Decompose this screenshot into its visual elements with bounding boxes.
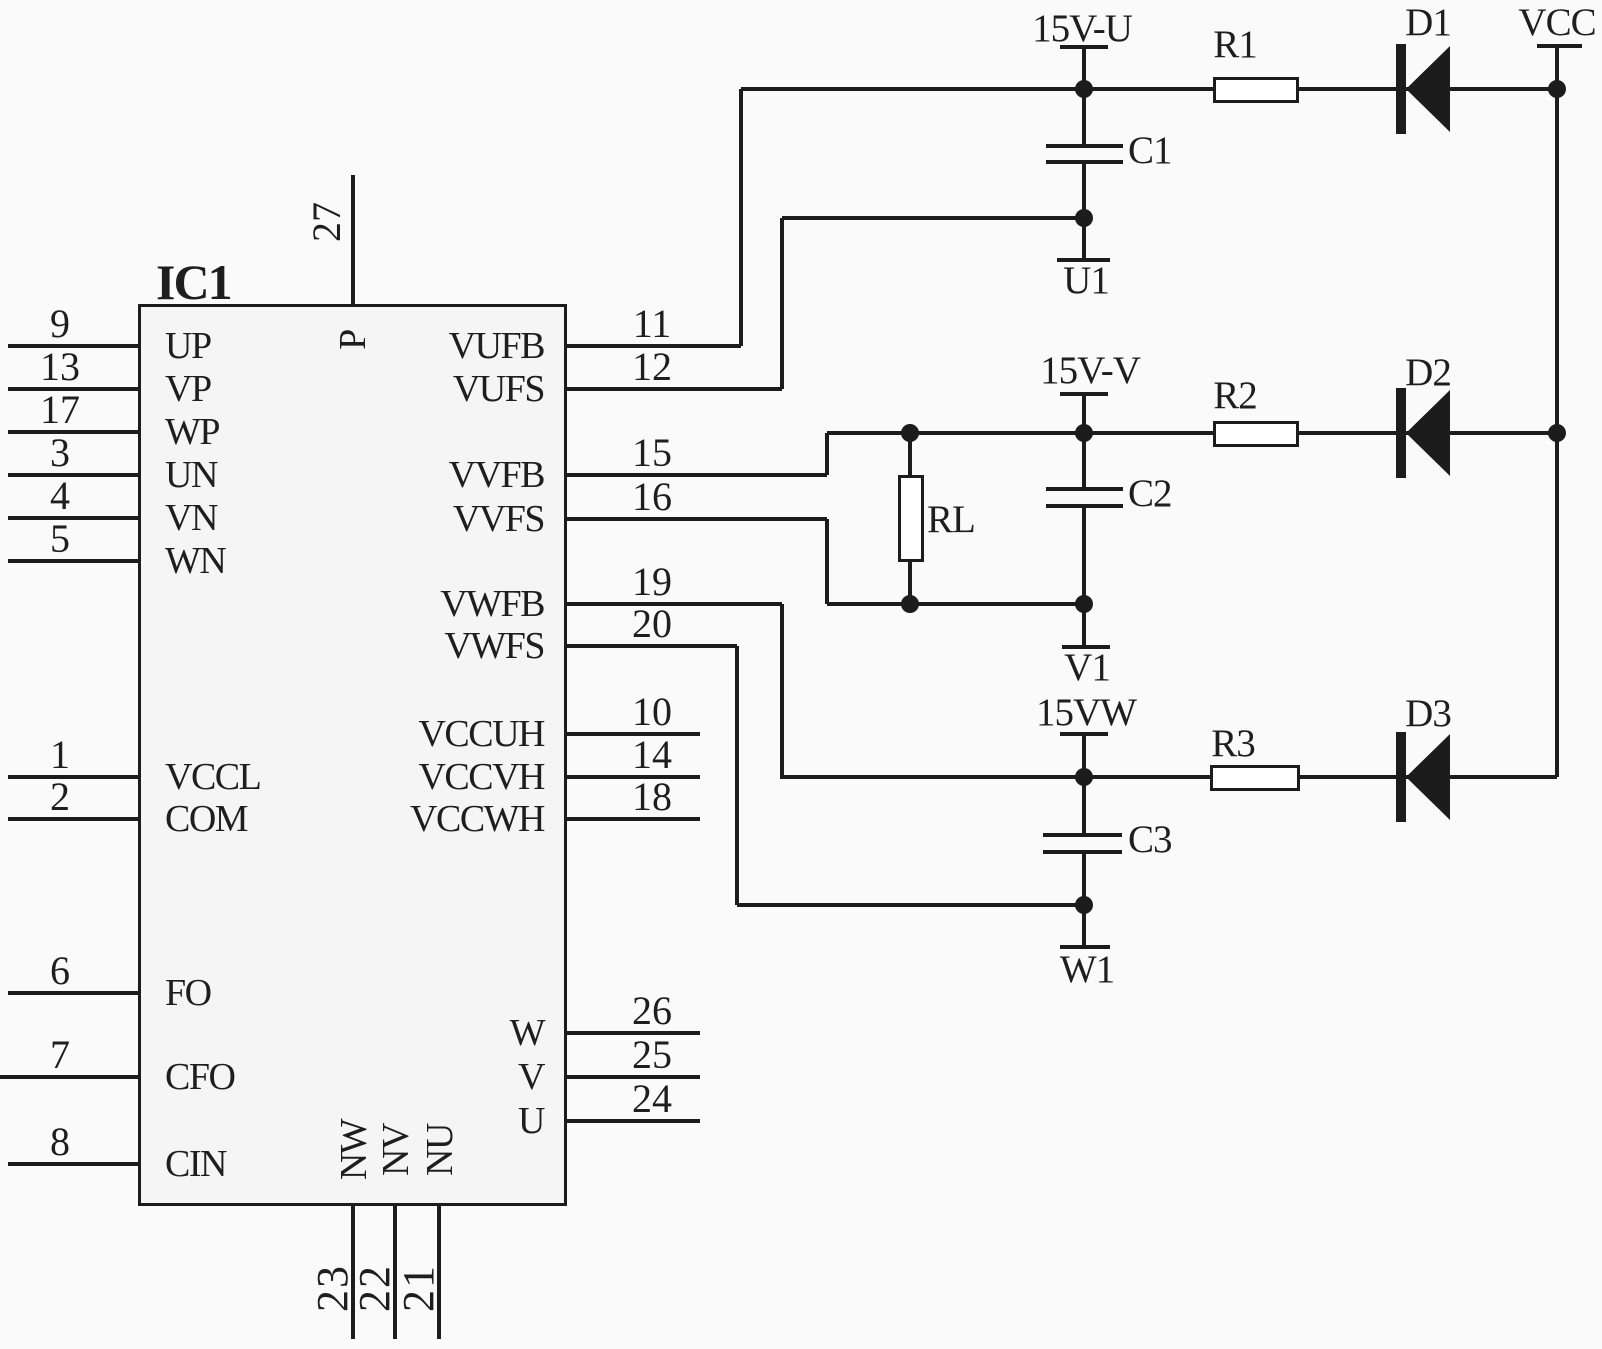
pin name CFO bbox=[165, 1058, 234, 1096]
resistor R3 bbox=[1210, 765, 1300, 791]
junction C1 bottom node bbox=[1075, 209, 1093, 227]
wire 15VW stem bbox=[1082, 736, 1086, 777]
wire 15V-U stem bbox=[1082, 49, 1086, 89]
label C3 bbox=[1128, 820, 1172, 859]
pin number 23 bbox=[311, 1264, 355, 1312]
wire pin 5 (WN) left lead bbox=[8, 559, 138, 563]
pin number 11 bbox=[633, 304, 672, 344]
wire pin 18 (VCCWH) right lead bbox=[566, 817, 700, 821]
pin name FO bbox=[165, 974, 211, 1012]
diode D1 triangle bbox=[1406, 46, 1450, 132]
pin name V bbox=[518, 1058, 544, 1096]
pin number 2 bbox=[50, 777, 70, 817]
pin number 22 bbox=[353, 1264, 397, 1312]
IC U-equivalent: IC1 body bbox=[138, 304, 567, 1206]
resistor R1 bbox=[1213, 77, 1299, 103]
wire pin 12 vertical riser bbox=[780, 218, 784, 389]
pin name VCCVH bbox=[418, 758, 544, 796]
node V1 terminal bar bbox=[1062, 645, 1110, 649]
wire pin 23 (NW) bottom lead bbox=[351, 1205, 355, 1339]
junction U-row at 15V-U bbox=[1075, 80, 1093, 98]
node VCC terminal bar bbox=[1537, 44, 1582, 48]
pin number 13 bbox=[40, 347, 80, 387]
pin name VWFS bbox=[444, 627, 544, 665]
pin name VUFB bbox=[449, 327, 544, 365]
wire pin 1 (VCCL) left lead bbox=[8, 775, 138, 779]
wire pin 11 (VUFB) right lead bbox=[566, 344, 741, 348]
wire pin 12 horizontal to C1 node bbox=[782, 216, 1084, 220]
wire pin 26 (W) right lead bbox=[566, 1031, 700, 1035]
label C2 bbox=[1128, 474, 1172, 513]
pin number 12 bbox=[632, 347, 672, 387]
capacitor C1 bottom plate bbox=[1046, 160, 1123, 164]
pin number 17 bbox=[40, 390, 80, 430]
wire pin 9 (UP) left lead bbox=[8, 344, 138, 348]
wire pin 15 vertical riser bbox=[825, 433, 829, 475]
net label 15V-V bbox=[1040, 351, 1140, 390]
wire pin 3 (UN) left lead bbox=[8, 473, 138, 477]
terminal label V1 bbox=[1064, 648, 1110, 687]
wire pin 27 (P) top lead bbox=[351, 175, 355, 304]
wire pin 2 (COM) left lead bbox=[8, 817, 138, 821]
pin name CIN bbox=[165, 1145, 226, 1183]
wire pin 20 vertical drop bbox=[735, 646, 739, 905]
wire V1 stem bbox=[1082, 604, 1086, 645]
pin name VN bbox=[165, 499, 217, 537]
wire pin 14 (VCCVH) right lead bbox=[566, 775, 700, 779]
capacitor C3 top plate bbox=[1043, 833, 1122, 837]
label D3 bbox=[1405, 694, 1451, 733]
resistor RL bbox=[898, 475, 924, 562]
pin number 14 bbox=[632, 735, 672, 775]
wire pin 16 (VVFS) right lead bbox=[566, 517, 827, 521]
pin name NU bbox=[421, 1124, 459, 1176]
pin name UP bbox=[165, 327, 211, 365]
pin name VVFB bbox=[449, 456, 544, 494]
pin name VCCUH bbox=[418, 715, 544, 753]
wire pin 25 (V) right lead bbox=[566, 1075, 700, 1079]
junction RL bottom bbox=[901, 595, 919, 613]
node W1 terminal bar bbox=[1060, 945, 1110, 949]
node U1 terminal bar bbox=[1057, 258, 1110, 262]
pin number 15 bbox=[632, 433, 672, 473]
pin number 10 bbox=[632, 692, 672, 732]
wire VCC rail vertical bbox=[1555, 48, 1559, 777]
label R1 bbox=[1213, 25, 1257, 64]
pin name VUFS bbox=[453, 370, 544, 408]
pin number 19 bbox=[632, 562, 672, 602]
wire 15V-V stem bbox=[1082, 396, 1086, 433]
pin name VCCL bbox=[165, 758, 260, 796]
net label 15VW bbox=[1036, 693, 1136, 732]
node 15V-U terminal bar bbox=[1060, 45, 1108, 49]
wire pin 22 (NV) bottom lead bbox=[393, 1205, 397, 1339]
junction V-row at RL top bbox=[901, 424, 919, 442]
wire pin 20 (VWFS) right lead bbox=[566, 644, 737, 648]
pin name WP bbox=[165, 413, 219, 451]
pin name VP bbox=[165, 370, 211, 408]
capacitor C2 bottom plate bbox=[1046, 504, 1123, 508]
pin number 5 bbox=[50, 519, 70, 559]
label R3 bbox=[1211, 724, 1255, 763]
wire C1 upper stem bbox=[1082, 89, 1086, 144]
pin number 8 bbox=[50, 1122, 70, 1162]
capacitor C1 top plate bbox=[1046, 144, 1123, 148]
wire V-row main horizontal bbox=[827, 431, 1557, 435]
wire pin 19 (VWFB) right lead bbox=[566, 602, 782, 606]
wire pin 17 (WP) left lead bbox=[8, 430, 138, 434]
diode D2 cathode bar bbox=[1396, 388, 1406, 478]
pin name P bbox=[334, 330, 372, 350]
label D2 bbox=[1405, 353, 1451, 392]
pin number 6 bbox=[50, 951, 70, 991]
pin number 4 bbox=[50, 476, 70, 516]
pin number 20 bbox=[632, 604, 672, 644]
pin number 24 bbox=[632, 1079, 672, 1119]
resistor R2 bbox=[1213, 421, 1299, 447]
wire C3 upper stem bbox=[1082, 777, 1086, 833]
pin name UN bbox=[165, 456, 217, 494]
pin number 3 bbox=[50, 433, 70, 473]
pin name WN bbox=[165, 542, 225, 580]
net label 15V-U bbox=[1032, 9, 1132, 48]
pin name VVFS bbox=[453, 500, 544, 538]
pin name VWFB bbox=[440, 585, 544, 623]
pin number 9 bbox=[50, 304, 70, 344]
node 15V-V terminal bar bbox=[1060, 392, 1108, 396]
wire C2 lower stem bbox=[1082, 508, 1086, 604]
pin number 16 bbox=[632, 477, 672, 517]
node 15VW terminal bar bbox=[1060, 732, 1108, 736]
diode D3 cathode bar bbox=[1396, 732, 1406, 822]
wire pin 11 vertical riser bbox=[739, 89, 743, 346]
junction U-row at VCC rail bbox=[1548, 80, 1566, 98]
terminal label U1 bbox=[1063, 261, 1109, 300]
label RL bbox=[927, 500, 975, 539]
pin number 27 bbox=[307, 202, 347, 242]
wire pin 8 (CIN) left lead bbox=[8, 1162, 138, 1166]
IC1 reference label bbox=[156, 257, 231, 307]
wire W1 stem bbox=[1082, 905, 1086, 945]
label R2 bbox=[1213, 376, 1257, 415]
pin number 1 bbox=[50, 735, 70, 775]
wire W-row bottom horizontal bbox=[737, 903, 1084, 907]
pin name COM bbox=[165, 800, 247, 838]
wire C1 lower stem bbox=[1082, 164, 1086, 259]
wire W-row main horizontal bbox=[780, 775, 1557, 779]
wire pin 24 (U) right lead bbox=[566, 1119, 700, 1123]
pin name VCCWH bbox=[410, 800, 544, 838]
pin name NW bbox=[335, 1120, 373, 1180]
wire C3 lower stem bbox=[1082, 854, 1086, 905]
pin number 26 bbox=[632, 991, 672, 1031]
pin number 18 bbox=[632, 777, 672, 817]
net label VCC bbox=[1518, 3, 1595, 42]
junction W-row at 15VW bbox=[1075, 768, 1093, 786]
wire RL upper stem bbox=[908, 433, 912, 475]
diode D2 triangle bbox=[1406, 390, 1450, 476]
junction C3 bottom bbox=[1075, 896, 1093, 914]
wire pin 6 (FO) left lead bbox=[8, 991, 138, 995]
wire V-row bottom horizontal bbox=[827, 602, 1084, 606]
pin name NV bbox=[377, 1124, 415, 1176]
wire pin 12 (VUFS) right lead bbox=[566, 387, 782, 391]
wire U-row main horizontal bbox=[741, 87, 1557, 91]
terminal label W1 bbox=[1060, 950, 1114, 989]
pin number 21 bbox=[397, 1264, 441, 1312]
diode D1 cathode bar bbox=[1396, 44, 1406, 134]
pin name U bbox=[518, 1102, 544, 1140]
wire C2 upper stem bbox=[1082, 433, 1086, 487]
junction V-row at 15V-V bbox=[1075, 424, 1093, 442]
wire pin 13 (VP) left lead bbox=[8, 387, 138, 391]
label D1 bbox=[1405, 3, 1451, 42]
pin name W bbox=[510, 1014, 544, 1052]
wire RL lower stem bbox=[908, 562, 912, 604]
wire pin 16 vertical drop bbox=[825, 519, 829, 604]
wire pin 10 (VCCUH) right lead bbox=[566, 732, 700, 736]
wire pin 19 vertical drop bbox=[780, 604, 784, 777]
capacitor C2 top plate bbox=[1046, 487, 1123, 491]
wire pin 21 (NU) bottom lead bbox=[437, 1205, 441, 1339]
wire pin 4 (VN) left lead bbox=[8, 516, 138, 520]
label C1 bbox=[1128, 131, 1172, 170]
junction C2 bottom bbox=[1075, 595, 1093, 613]
wire pin 15 (VVFB) right lead bbox=[566, 473, 827, 477]
diode D3 triangle bbox=[1406, 734, 1450, 820]
capacitor C3 bottom plate bbox=[1043, 850, 1122, 854]
pin number 7 bbox=[50, 1035, 70, 1075]
pin number 25 bbox=[632, 1035, 672, 1075]
wire pin 7 (CFO) left lead bbox=[0, 1075, 138, 1079]
junction V-row at VCC rail bbox=[1548, 424, 1566, 442]
